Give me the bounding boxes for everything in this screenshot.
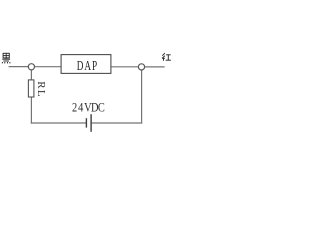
svg-text:DAP: DAP <box>77 57 98 74</box>
svg-text:RL: RL <box>35 81 47 98</box>
svg-text:24VDC: 24VDC <box>72 100 105 114</box>
